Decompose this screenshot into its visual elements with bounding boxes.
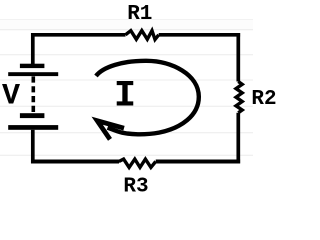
- wire: top-left horizontal segment: [31, 33, 126, 37]
- wire: top-right horizontal segment: [159, 33, 240, 37]
- svg-text:I: I: [114, 76, 136, 118]
- resistor R1: [126, 31, 159, 40]
- faint ruled background lines: [0, 20, 253, 30]
- battery V: cell 2 long plate: [8, 125, 58, 130]
- wire: bottom-right horizontal segment: [156, 160, 240, 164]
- svg-text:R3: R3: [123, 176, 148, 199]
- wire: bottom-left horizontal segment: [31, 160, 119, 164]
- battery V: cell 1 short plate: [20, 64, 45, 68]
- resistor R3: [119, 159, 156, 167]
- wire: left vertical upper segment (to battery): [31, 33, 35, 65]
- svg-text:R1: R1: [127, 3, 152, 26]
- battery V: dashed center link: [31, 76, 35, 113]
- wire: left vertical lower segment (battery to bottom): [31, 130, 35, 164]
- current loop arrow (clockwise ellipse): [96, 61, 199, 134]
- resistor R2: [236, 82, 242, 113]
- battery V: cell 1 long plate: [8, 72, 58, 76]
- wire: right vertical lower segment: [236, 113, 240, 164]
- svg-text:R2: R2: [251, 88, 276, 111]
- svg-text:V: V: [2, 80, 20, 114]
- wire: right vertical upper segment: [236, 33, 240, 82]
- battery V: cell 2 short plate: [20, 113, 45, 118]
- current loop arrowhead: [97, 121, 124, 140]
